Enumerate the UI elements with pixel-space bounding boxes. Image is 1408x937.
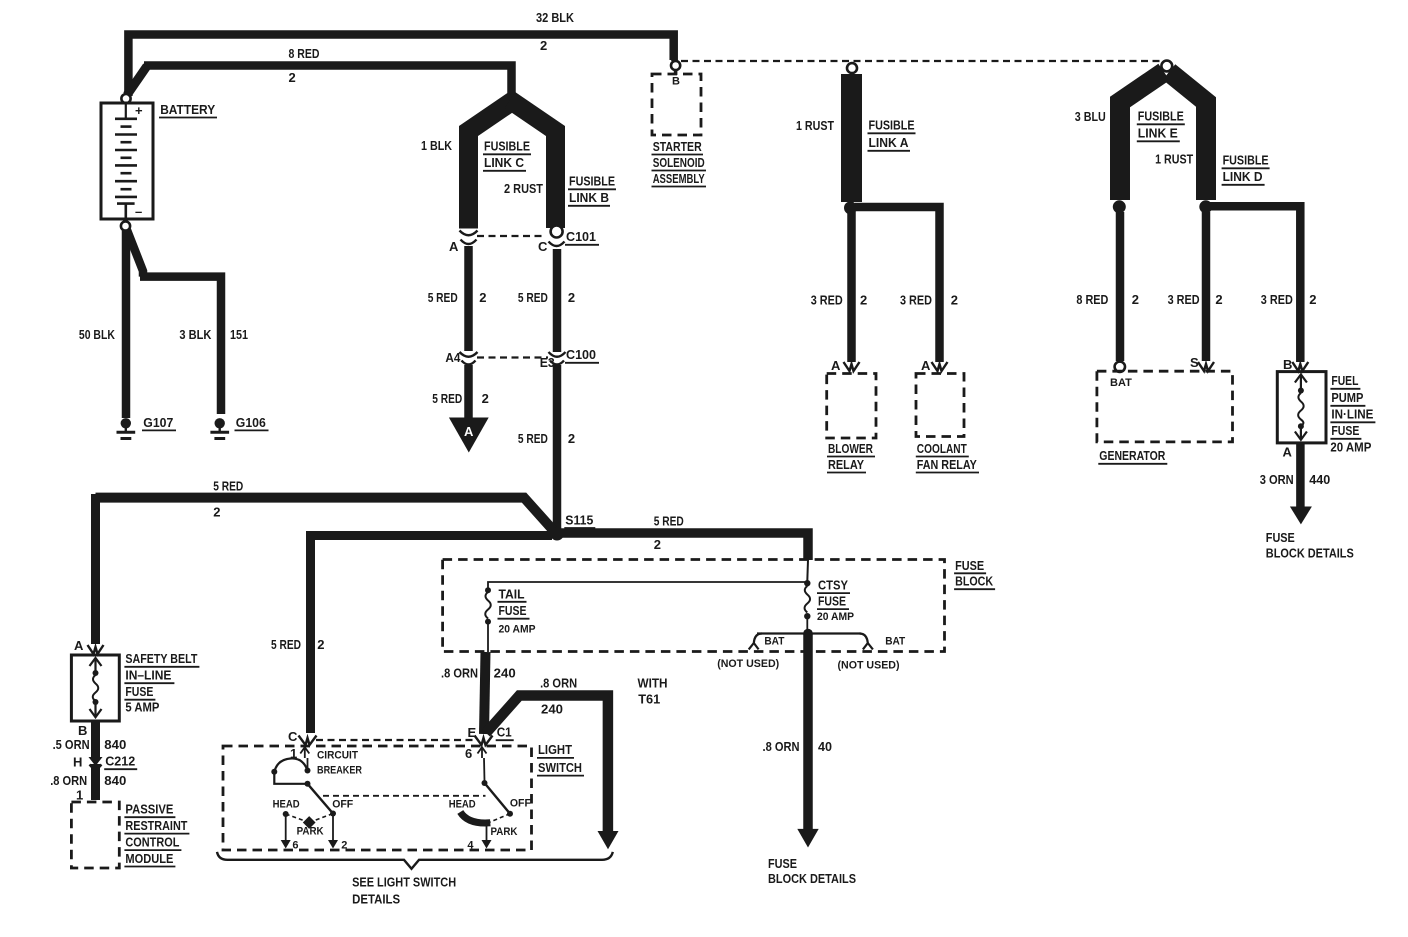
- svg-text:HEAD: HEAD: [273, 799, 300, 811]
- wire 3 RED to generator S: [1202, 212, 1211, 361]
- connector C100 terminal A4: [460, 352, 478, 365]
- ctsy fuse: [804, 560, 810, 634]
- svg-text:A: A: [464, 424, 474, 439]
- wire 3 RED to blower relay: [847, 212, 856, 362]
- label LIGHT SWITCH: [537, 742, 584, 775]
- bat terminal left not used: [749, 634, 785, 650]
- svg-text:TAIL: TAIL: [499, 586, 525, 601]
- svg-text:.8 ORN: .8 ORN: [763, 739, 800, 754]
- wire head left to pin 6: [281, 814, 299, 851]
- passive restraint control module box: [71, 802, 119, 868]
- svg-text:B: B: [78, 723, 87, 738]
- svg-text:2: 2: [568, 290, 575, 305]
- svg-text:5 RED: 5 RED: [271, 637, 301, 652]
- svg-text:IN·LINE: IN·LINE: [1331, 407, 1373, 422]
- svg-text:20 AMP: 20 AMP: [1330, 440, 1371, 455]
- wire .5 ORN 840: [91, 721, 100, 757]
- svg-text:IN–LINE: IN–LINE: [125, 668, 171, 683]
- terminal A blower relay: [831, 358, 860, 373]
- label 3 BLK 151: [179, 327, 248, 342]
- svg-text:WITH: WITH: [638, 676, 668, 691]
- label 5 RED 2 right branch: [654, 514, 684, 552]
- label 5 RED 2 middle branch: [271, 637, 325, 652]
- svg-text:S115: S115: [565, 513, 593, 528]
- svg-text:BLOCK DETAILS: BLOCK DETAILS: [1266, 546, 1354, 561]
- wire 5 RED S115 to safety belt fuse: [96, 494, 554, 644]
- ground G107: [117, 418, 136, 438]
- svg-text:1 RUST: 1 RUST: [1155, 152, 1193, 167]
- svg-text:MODULE: MODULE: [125, 851, 173, 866]
- label BLOWER RELAY: [827, 441, 875, 473]
- svg-text:1 RUST: 1 RUST: [796, 118, 834, 133]
- label 5 RED 2 below A4: [432, 391, 489, 406]
- svg-text:2: 2: [213, 504, 220, 519]
- fuel pump in-line fuse box: [1277, 372, 1326, 443]
- connector C101 right terminal C: [549, 226, 565, 247]
- svg-text:(NOT USED): (NOT USED): [838, 660, 900, 672]
- svg-text:2: 2: [1132, 292, 1139, 307]
- svg-text:C: C: [288, 729, 298, 744]
- svg-text:LINK A: LINK A: [869, 135, 910, 150]
- label WITH T61: [638, 676, 668, 707]
- label 1 BLK: [421, 138, 453, 153]
- label 5 RED 2 right: [518, 290, 575, 305]
- svg-text:ASSEMBLY: ASSEMBLY: [653, 171, 705, 186]
- svg-text:2: 2: [951, 293, 958, 308]
- label 8 RED 2: [1076, 292, 1139, 307]
- svg-text:FUSIBLE: FUSIBLE: [869, 118, 915, 133]
- label A4: [445, 350, 461, 365]
- label G107: [142, 415, 176, 430]
- svg-text:5 RED: 5 RED: [213, 479, 243, 494]
- label PARK left: [297, 826, 324, 838]
- svg-text:840: 840: [104, 737, 126, 752]
- svg-text:2: 2: [341, 839, 347, 851]
- svg-text:20 AMP: 20 AMP: [499, 624, 536, 636]
- label S115: [564, 513, 595, 529]
- svg-text:H: H: [73, 755, 82, 770]
- svg-text:LINK E: LINK E: [1138, 126, 1178, 141]
- svg-text:FUEL: FUEL: [1331, 373, 1358, 388]
- connector C100 dashed line: [477, 356, 548, 358]
- label FUSIBLE LINK D: [1222, 153, 1270, 185]
- wire battery negative to G106: [127, 230, 221, 414]
- label C101: [565, 229, 599, 245]
- svg-text:151: 151: [230, 327, 248, 342]
- svg-text:2: 2: [1309, 292, 1316, 307]
- label .8 ORN 40: [763, 739, 833, 754]
- label 3 RED 2 fuel pump: [1261, 292, 1317, 307]
- svg-text:20 AMP: 20 AMP: [817, 611, 854, 623]
- svg-text:–: –: [135, 204, 142, 219]
- label 1 passive restraint: [76, 788, 83, 803]
- svg-text:CIRCUIT: CIRCUIT: [317, 750, 358, 762]
- generator S terminal fork: [1190, 355, 1214, 371]
- svg-text:T61: T61: [638, 692, 660, 707]
- svg-text:B: B: [672, 76, 680, 88]
- wire .8 ORN 240 tail fuse to light switch E: [484, 652, 486, 734]
- svg-text:OFF: OFF: [510, 798, 531, 810]
- label FUSE BLOCK DETAILS bottom: [768, 856, 856, 886]
- label 1 RUST right: [1155, 152, 1193, 167]
- label .5 ORN 840: [53, 737, 127, 752]
- svg-text:A: A: [921, 358, 931, 373]
- svg-text:BAT: BAT: [1110, 377, 1132, 389]
- battery positive terminal: [121, 94, 130, 103]
- bat terminal right not used: [860, 634, 906, 650]
- svg-text:OFF: OFF: [332, 799, 353, 811]
- label 50 BLK: [79, 327, 115, 342]
- label 32 BLK 2: [536, 10, 575, 53]
- svg-text:.8 ORN: .8 ORN: [540, 676, 577, 691]
- svg-text:SWITCH: SWITCH: [538, 760, 582, 775]
- inner dashed divider: [323, 795, 486, 797]
- svg-text:840: 840: [104, 773, 126, 788]
- svg-text:BLOCK DETAILS: BLOCK DETAILS: [768, 871, 856, 886]
- connector C101 left terminal A: [460, 231, 478, 245]
- svg-text:SEE LIGHT SWITCH: SEE LIGHT SWITCH: [352, 875, 456, 890]
- label NOT USED left: [717, 658, 779, 670]
- svg-text:+: +: [135, 103, 143, 118]
- svg-text:40: 40: [818, 739, 832, 754]
- svg-text:DETAILS: DETAILS: [352, 891, 400, 906]
- wire 5 RED S115 to fuse block: [562, 533, 808, 560]
- svg-text:5 RED: 5 RED: [518, 431, 548, 446]
- svg-text:2: 2: [289, 70, 296, 85]
- generator BAT terminal ring: [1115, 362, 1125, 372]
- svg-text:LINK B: LINK B: [569, 190, 609, 205]
- wire to coolant fan relay branch: [855, 207, 940, 362]
- label SAFETY BELT IN-LINE FUSE 5 AMP: [124, 651, 199, 715]
- svg-text:3 RED: 3 RED: [811, 293, 843, 308]
- label .8 ORN 840: [50, 773, 126, 788]
- label TAIL FUSE 20 AMP: [498, 586, 536, 635]
- wire 5 RED S115 to light switch C: [311, 536, 553, 734]
- svg-text:FUSE: FUSE: [768, 856, 797, 871]
- svg-text:5 AMP: 5 AMP: [125, 700, 159, 715]
- svg-text:A: A: [74, 638, 84, 653]
- label E3: [540, 355, 555, 370]
- svg-text:1: 1: [76, 788, 83, 803]
- label 5 RED 2 below E3: [518, 431, 575, 446]
- label 3 BLU: [1075, 109, 1106, 124]
- fusible link D: [1169, 72, 1206, 200]
- svg-text:3 RED: 3 RED: [1261, 292, 1293, 307]
- fusible link A: [841, 74, 862, 202]
- battery negative terminal: [121, 221, 130, 230]
- label FUSIBLE LINK B: [568, 174, 616, 206]
- svg-text:LIGHT: LIGHT: [538, 742, 572, 757]
- svg-text:240: 240: [541, 701, 563, 716]
- fuel pump terminal B fork: [1283, 357, 1308, 372]
- svg-text:3 BLU: 3 BLU: [1075, 109, 1106, 124]
- svg-text:FUSIBLE: FUSIBLE: [1223, 153, 1269, 168]
- svg-text:FUSIBLE: FUSIBLE: [484, 139, 530, 154]
- wire 32 BLK bus battery to starter solenoid: [128, 35, 673, 97]
- svg-text:PASSIVE: PASSIVE: [125, 801, 173, 816]
- label 8 RED 2: [289, 46, 320, 85]
- svg-text:C101: C101: [566, 229, 596, 244]
- fusible link B: [510, 100, 556, 228]
- label FUEL PUMP IN-LINE FUSE 20 AMP: [1330, 373, 1375, 455]
- label 2 RUST: [504, 181, 543, 196]
- svg-text:6: 6: [465, 746, 472, 761]
- wire battery negative to G107: [122, 230, 131, 418]
- lever thick arc right: [460, 812, 490, 823]
- svg-text:2: 2: [479, 290, 486, 305]
- wire 5 RED terminal A down: [464, 246, 473, 351]
- svg-text:6: 6: [292, 839, 298, 851]
- label FUSIBLE LINK E: [1137, 109, 1185, 142]
- wire .8 ORN 40 with arrow to fuse block details: [797, 634, 818, 848]
- label FUSE BLOCK: [954, 558, 995, 589]
- svg-text:B: B: [1283, 357, 1292, 372]
- circuit breaker: [271, 758, 310, 786]
- terminal arrow up pin 6: [478, 747, 487, 781]
- svg-text:5 RED: 5 RED: [518, 290, 548, 305]
- svg-text:A: A: [831, 358, 841, 373]
- svg-text:RESTRAINT: RESTRAINT: [125, 818, 187, 833]
- wire 8 RED battery to fusible links: [127, 66, 512, 96]
- tail fuse: [485, 587, 491, 652]
- svg-text:.8 ORN: .8 ORN: [441, 666, 478, 681]
- label FUSIBLE LINK C: [483, 139, 531, 171]
- light switch box: [223, 746, 532, 850]
- fusible link E: [1120, 72, 1164, 200]
- wire 5 RED below A4: [464, 365, 473, 419]
- label 3 RED 2 blower: [811, 293, 868, 308]
- label GENERATOR: [1098, 448, 1167, 464]
- label 3 RED 2 coolant: [900, 293, 958, 308]
- wire .8 ORN 240 with T61 branch: [486, 696, 619, 850]
- node fusible link junction: [507, 92, 518, 103]
- svg-text:.8 ORN: .8 ORN: [50, 773, 87, 788]
- svg-text:FUSE: FUSE: [955, 558, 984, 573]
- safety belt in-line fuse box: [71, 655, 119, 721]
- label HEAD OFF left: [273, 799, 354, 811]
- svg-text:4: 4: [467, 839, 474, 851]
- label 1 RUST: [796, 118, 834, 133]
- svg-text:STARTER: STARTER: [653, 139, 702, 154]
- svg-text:5 RED: 5 RED: [432, 391, 462, 406]
- svg-text:3 RED: 3 RED: [1168, 292, 1200, 307]
- node below fusible link D: [1199, 200, 1212, 213]
- node S115: [550, 527, 564, 541]
- svg-text:HEAD: HEAD: [449, 799, 476, 811]
- wire 3 RED branch to fuel pump fuse: [1210, 206, 1300, 362]
- contact PARK left: [303, 816, 316, 829]
- label B safety belt: [78, 723, 87, 738]
- svg-text:2: 2: [1215, 292, 1222, 307]
- bat terminal row line: [757, 632, 861, 634]
- node ctsy bat junction: [803, 629, 813, 639]
- svg-text:2: 2: [482, 391, 489, 406]
- terminal arrow up pin 1: [300, 747, 309, 768]
- svg-text:SOLENOID: SOLENOID: [653, 155, 705, 170]
- connector C100 terminal E3: [549, 352, 566, 365]
- label STARTER SOLENOID ASSEMBLY: [652, 139, 707, 187]
- node below fusible link E: [1113, 200, 1126, 213]
- wire 3 ORN with arrow to fuse block details: [1290, 443, 1312, 524]
- terminal E C1 light switch: [468, 725, 514, 746]
- fusible link E D peak ring: [1161, 61, 1172, 72]
- ground G106: [210, 418, 229, 438]
- svg-text:FUSE: FUSE: [499, 603, 527, 618]
- svg-text:.5 ORN: .5 ORN: [53, 737, 90, 752]
- connector dashed line C to E: [316, 739, 474, 741]
- svg-text:50 BLK: 50 BLK: [79, 327, 115, 342]
- svg-text:C1: C1: [497, 725, 512, 740]
- svg-text:PARK: PARK: [491, 826, 518, 838]
- svg-text:CONTROL: CONTROL: [125, 834, 179, 849]
- svg-text:BAT: BAT: [885, 635, 905, 647]
- svg-text:A: A: [449, 239, 459, 254]
- svg-text:FUSE: FUSE: [1266, 530, 1295, 545]
- connector C212: [73, 754, 137, 772]
- svg-text:3 RED: 3 RED: [900, 293, 932, 308]
- wire 5 RED terminal C down: [553, 249, 562, 352]
- svg-text:32 BLK: 32 BLK: [536, 10, 575, 25]
- svg-text:3 BLK: 3 BLK: [179, 327, 212, 342]
- label PARK right: [491, 826, 518, 838]
- svg-text:BREAKER: BREAKER: [317, 765, 362, 777]
- fuse block box: [443, 560, 945, 652]
- svg-text:CTSY: CTSY: [818, 578, 848, 593]
- svg-text:2: 2: [540, 38, 547, 53]
- starter solenoid terminal B circle: [671, 58, 680, 75]
- svg-text:SAFETY BELT: SAFETY BELT: [125, 651, 197, 666]
- svg-text:FUSIBLE: FUSIBLE: [1138, 109, 1184, 124]
- node below fusible link A: [844, 201, 857, 214]
- label 5 RED 2 left: [428, 290, 487, 305]
- svg-text:E3: E3: [540, 355, 555, 370]
- fusible link A terminal circle: [847, 63, 857, 73]
- svg-text:G106: G106: [236, 415, 266, 430]
- label .8 ORN 240: [441, 666, 516, 681]
- svg-text:BAT: BAT: [764, 635, 784, 647]
- svg-text:PARK: PARK: [297, 826, 324, 838]
- svg-text:FUSE: FUSE: [1331, 423, 1359, 438]
- terminal C light switch: [288, 729, 317, 745]
- label HEAD OFF right: [449, 798, 531, 811]
- arrow A to details: [449, 418, 489, 453]
- svg-text:FUSE: FUSE: [818, 594, 846, 609]
- svg-text:FUSIBLE: FUSIBLE: [569, 174, 615, 189]
- coolant fan relay box: [916, 374, 964, 437]
- label 6 pin right: [465, 746, 472, 761]
- svg-text:5 RED: 5 RED: [428, 290, 458, 305]
- label CTSY FUSE 20 AMP: [817, 578, 854, 623]
- svg-text:GENERATOR: GENERATOR: [1099, 448, 1165, 463]
- svg-text:C100: C100: [566, 347, 596, 362]
- blower relay box: [827, 374, 876, 439]
- svg-text:2: 2: [860, 293, 867, 308]
- svg-text:FAN RELAY: FAN RELAY: [917, 457, 977, 472]
- svg-text:G107: G107: [143, 415, 173, 430]
- dashed off to park right: [489, 814, 510, 823]
- contact OFF left: [330, 811, 336, 817]
- dashed contact arc left: [286, 814, 333, 823]
- starter solenoid assembly box: [652, 74, 701, 135]
- svg-text:RELAY: RELAY: [828, 457, 864, 472]
- connector C101 dashed line: [477, 235, 546, 237]
- svg-text:(NOT USED): (NOT USED): [717, 658, 779, 670]
- contact OFF right: [507, 811, 513, 817]
- label C100: [565, 347, 599, 363]
- label COOLANT FAN RELAY: [916, 441, 979, 473]
- switch blade left: [308, 784, 334, 814]
- svg-text:COOLANT: COOLANT: [917, 441, 967, 456]
- fusible link C: [469, 100, 515, 229]
- svg-text:BLOCK: BLOCK: [955, 574, 994, 589]
- wire off left to pin 2: [328, 814, 347, 852]
- svg-text:8 RED: 8 RED: [1076, 292, 1108, 307]
- terminal A safety belt fuse: [74, 638, 104, 654]
- svg-text:2: 2: [317, 637, 324, 652]
- svg-text:BLOWER: BLOWER: [828, 441, 873, 456]
- label A at C101: [449, 239, 459, 254]
- svg-text:BATTERY: BATTERY: [160, 102, 215, 117]
- brace see light switch details: [217, 852, 613, 869]
- label FUSE BLOCK DETAILS right: [1266, 530, 1354, 561]
- svg-text:A: A: [1283, 445, 1293, 460]
- svg-text:1 BLK: 1 BLK: [421, 138, 453, 153]
- label FUSIBLE LINK A: [868, 118, 916, 151]
- wire thin tail fuse to ctsy fuse top: [488, 582, 807, 589]
- label CIRCUIT BREAKER: [317, 750, 362, 777]
- svg-text:FUSE: FUSE: [125, 684, 153, 699]
- svg-text:LINK C: LINK C: [484, 155, 525, 170]
- label BATTERY: [159, 102, 217, 118]
- svg-text:C212: C212: [105, 754, 135, 769]
- wire 5 RED below E3 to S115: [553, 365, 562, 530]
- svg-text:8 RED: 8 RED: [289, 46, 320, 61]
- label 3 ORN 440: [1260, 472, 1331, 487]
- svg-text:440: 440: [1309, 472, 1330, 487]
- svg-text:240: 240: [494, 666, 516, 681]
- wire park right to pin 4: [467, 823, 491, 851]
- wire .8 ORN 840: [91, 764, 100, 800]
- svg-text:2: 2: [654, 537, 661, 552]
- label NOT USED right: [838, 660, 900, 672]
- svg-text:2 RUST: 2 RUST: [504, 181, 543, 196]
- svg-text:LINK D: LINK D: [1223, 169, 1263, 184]
- svg-text:2: 2: [568, 431, 575, 446]
- wire dashed starter solenoid to fusible links E D: [681, 60, 1161, 62]
- label 3 RED 2 generator S: [1168, 292, 1223, 307]
- svg-text:C: C: [538, 239, 548, 254]
- svg-text:PUMP: PUMP: [1331, 390, 1363, 405]
- label A fuel pump: [1283, 445, 1293, 460]
- svg-text:5 RED: 5 RED: [654, 514, 684, 529]
- switch blade right: [482, 780, 511, 814]
- label PASSIVE RESTRAINT CONTROL MODULE: [124, 801, 189, 866]
- label .8 ORN 240 with T61: [540, 676, 577, 717]
- label G106: [235, 415, 269, 430]
- svg-text:A4: A4: [445, 350, 461, 365]
- battery BATTERY: [101, 103, 153, 219]
- contact HEAD left: [283, 811, 289, 817]
- label C at C101: [538, 239, 548, 254]
- generator box: [1097, 371, 1233, 442]
- label 1 pin: [290, 746, 297, 761]
- wire 8 RED to generator BAT: [1116, 212, 1125, 361]
- svg-text:3 ORN: 3 ORN: [1260, 472, 1294, 487]
- label SEE LIGHT SWITCH DETAILS: [352, 875, 456, 907]
- label 5 RED 2 left branch: [213, 479, 243, 520]
- terminal A coolant fan relay: [921, 358, 948, 373]
